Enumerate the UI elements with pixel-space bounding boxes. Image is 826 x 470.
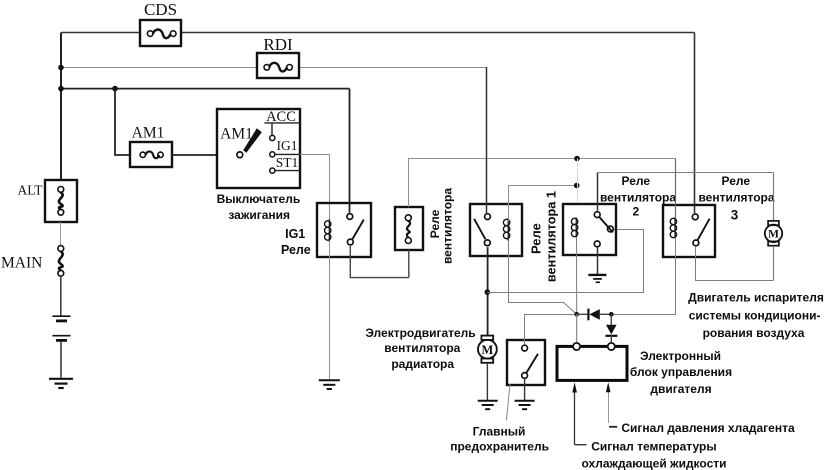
wire: x=349.5 from y=88.6 down to relay IG1 switch — [349, 89, 351, 213]
node: junction dot at (487.3,292.1) — [485, 289, 491, 295]
ground: under relay C — [588, 275, 606, 282]
wire: ALT to MAIN (thin) — [60, 222, 62, 246]
svg-text:вентилятора 1: вентилятора 1 — [545, 191, 559, 282]
battery — [52, 316, 70, 340]
wire: top horizontal line y=32.5 from x=61 to CDS and on to x=694.5 — [61, 32, 695, 34]
leader line to Главный предохранитель label — [507, 384, 511, 421]
wire: branch x=115 down to AM1 fuse row — [115, 89, 130, 155]
wire: relay D coil top up to y=158.2 corner — [675, 159, 677, 218]
svg-text:IG1: IG1 — [285, 227, 305, 241]
svg-text:Главный: Главный — [473, 424, 526, 438]
svg-text:вентилятора: вентилятора — [698, 190, 774, 204]
wire: battery main vertical x=61 from top line down to ALT box — [60, 33, 62, 181]
svg-text:зажигания: зажигания — [228, 208, 290, 222]
svg-text:Реле: Реле — [529, 223, 544, 254]
svg-text:CDS: CDS — [144, 0, 177, 19]
node: junction dot at (611.3,313.6) — [609, 312, 614, 317]
motor M evaporator — [765, 173, 782, 281]
wire: x=486.5 from RDI row down to relay B switch — [486, 67, 488, 213]
wire: y=292.2 from dot right to x=643 and up to relay C NO contact — [487, 230, 643, 293]
relay D coil — [670, 218, 676, 239]
svg-text:3: 3 — [731, 208, 739, 223]
node: junction dot at (61,88.6) — [58, 86, 64, 92]
svg-text:ACC: ACC — [266, 109, 296, 125]
ECU terminal left — [573, 343, 580, 350]
svg-text:вентилятора: вентилятора — [441, 188, 455, 264]
svg-text:предохранитель: предохранитель — [450, 440, 549, 454]
svg-text:блок управления: блок управления — [630, 365, 732, 379]
node: junction dot at (576.7,185.3) — [574, 183, 580, 189]
relay IG1 switch — [347, 214, 364, 245]
wire: IG1 output from switch to IG1 relay coil — [300, 155, 330, 220]
svg-text:M: M — [481, 343, 493, 357]
wire: main fuse bottom to ground — [524, 379, 526, 400]
arrow: refrigerant pressure signal into ECU — [606, 382, 617, 427]
contact IG1 — [270, 152, 275, 157]
svg-text:охлаждающей жидкости: охлаждающей жидкости — [582, 456, 727, 470]
ground: under main fuse — [515, 401, 535, 410]
wire: relay C coil bottom down to ECU node dot — [576, 237, 578, 314]
diode D2 (pointing down) — [606, 314, 618, 343]
fuse CDS — [140, 20, 181, 46]
svg-text:Двигатель испарителя: Двигатель испарителя — [688, 291, 824, 305]
ground: under IG1 relay coil — [319, 380, 340, 389]
svg-text:2: 2 — [632, 204, 639, 218]
node: junction dot at (115,88.6) — [112, 86, 118, 92]
terminal ST1 wire — [276, 170, 301, 172]
contact ACC — [270, 135, 275, 140]
svg-text:M: M — [768, 229, 779, 241]
wire: battery to ground — [60, 342, 62, 378]
faint wire: x=577 from y=158.2 down into relay C coil — [577, 159, 579, 205]
svg-text:ALT: ALT — [18, 183, 44, 198]
wire: ignition feed row y=88.6 from x=61 to x=349.5 — [61, 88, 350, 90]
ignition switch box — [217, 109, 300, 188]
wire: relay D switch bottom to evaporator motor bottom — [696, 246, 774, 281]
wire: main fuse top up and right to ECU node dot — [525, 315, 577, 345]
relay fan-2 box (C) — [563, 204, 616, 255]
wire: IG1 relay coil to ground — [329, 241, 331, 379]
svg-text:Электродвигатель: Электродвигатель — [365, 326, 475, 340]
wire: AM1 fuse to ignition switch — [172, 154, 217, 156]
ground: battery ground — [49, 379, 73, 388]
svg-text:двигателя: двигателя — [650, 382, 711, 396]
wire: MAIN to battery — [60, 276, 62, 316]
wire: relay B coil bottom route to ECU node — [509, 241, 577, 314]
fuse (fusible link) Реле вентилятора box — [395, 207, 423, 250]
wire: relay C NC contact to ground — [597, 247, 599, 274]
ECU box (Электронный блок управления двигателя) — [557, 346, 627, 380]
wire: relay B switch bottom down to radiator motor — [487, 247, 489, 336]
fuse RDI — [257, 53, 299, 78]
node: junction dot at (61,67) — [58, 65, 64, 71]
fuse (main) Главный предохранитель box — [507, 340, 545, 385]
svg-text:радиатора: радиатора — [391, 357, 454, 371]
relay C changeover switch — [594, 212, 613, 247]
node: junction dot at (577,158.2) — [574, 156, 580, 162]
lever (wedge) — [243, 128, 262, 153]
svg-text:вентилятора: вентилятора — [600, 190, 676, 204]
wire: relay C common up to y=172.8 — [597, 173, 599, 211]
svg-text:IG1: IG1 — [277, 138, 298, 153]
svg-text:Реле: Реле — [722, 174, 751, 188]
terminal IG1 wire — [276, 153, 301, 155]
svg-text:вентилятора: вентилятора — [384, 341, 460, 355]
relay IG1 coil — [325, 219, 331, 242]
fusible link ALT box — [45, 180, 77, 222]
svg-text:ST1: ST1 — [276, 155, 299, 170]
svg-text:системы кондициони-: системы кондициони- — [689, 308, 821, 322]
svg-text:RDI: RDI — [263, 35, 293, 54]
motor M radiator fan — [478, 336, 497, 400]
svg-text:Реле: Реле — [281, 243, 311, 257]
ECU terminal right — [608, 343, 615, 350]
relay C coil — [571, 218, 577, 238]
svg-text:Выключатель: Выключатель — [217, 192, 301, 206]
svg-text:Сигнал давления хладагента: Сигнал давления хладагента — [621, 421, 795, 435]
relay B switch — [474, 214, 490, 246]
relay fan-1 box (B) — [470, 204, 522, 256]
relay IG1 box — [317, 203, 371, 257]
svg-text:AM1: AM1 — [220, 126, 253, 143]
wire: vertical x=694.5 from top line down to fan relay 3 box — [694, 33, 696, 214]
relay D switch — [692, 214, 709, 246]
wire: ECU left terminal up to node dot — [576, 314, 578, 343]
wire: RDI row y=67 (thin gray) from x=61 to RDI box and on to x=486.5 — [61, 67, 487, 69]
ground: under radiator motor — [478, 401, 498, 410]
svg-text:MAIN: MAIN — [1, 255, 42, 272]
node: junction dot at (576.7,313.6) — [574, 312, 579, 317]
svg-text:Сигнал температуры: Сигнал температуры — [591, 439, 716, 453]
svg-text:Реле: Реле — [622, 174, 651, 188]
wire: relay D coil bottom down to y=314.1 and left to dot x=611.3 — [611, 238, 675, 314]
contact AM1 — [237, 152, 243, 158]
svg-text:Электронный: Электронный — [640, 349, 721, 363]
wire: IG1 relay switch bottom to fan relay fuse bottom — [350, 246, 409, 278]
fusible link MAIN — [58, 246, 64, 277]
relay B coil — [503, 218, 509, 241]
ignition switch internals — [237, 123, 300, 173]
wire: fuse top up to y=158.2 and right to x=675 — [409, 159, 676, 208]
contact ST1 — [270, 168, 275, 173]
wire: y=172.8 from x=597.5 right to evaporator motor drop x=774.7 — [598, 172, 774, 174]
wire: relay B coil top to y=185.3 and right to dot — [509, 186, 577, 222]
wire: fuse bottom down to y=277.6 — [408, 250, 410, 278]
terminal ACC wire and stub — [264, 123, 300, 135]
fuse AM1 — [130, 142, 172, 167]
svg-text:рования воздуха: рования воздуха — [703, 326, 805, 340]
svg-text:AM1: AM1 — [132, 125, 165, 142]
relay fan-3 box (D) — [663, 205, 715, 257]
arrow: coolant temperature signal into ECU — [572, 382, 586, 445]
diode D1 (pointing left) — [577, 309, 612, 321]
